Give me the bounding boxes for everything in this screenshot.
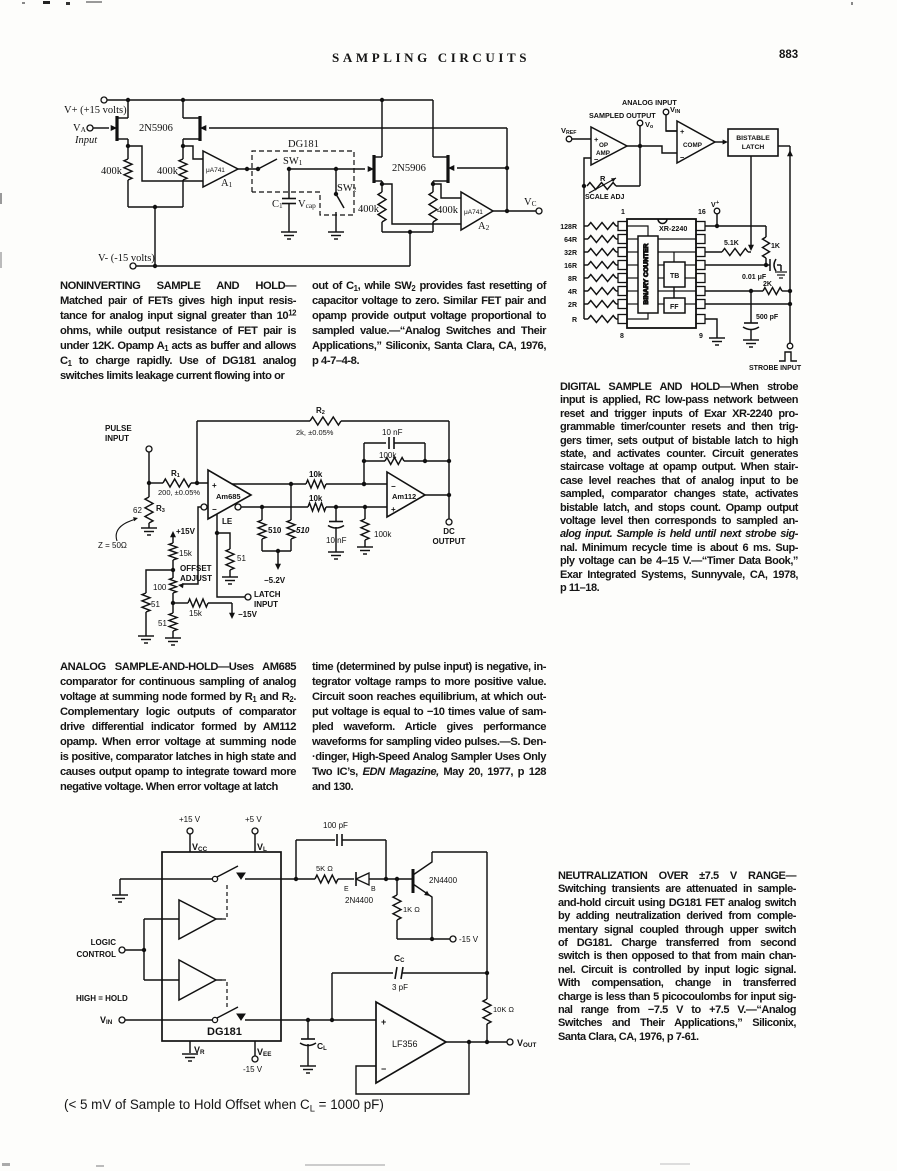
- svg-text:+: +: [212, 481, 217, 490]
- svg-text:9: 9: [699, 333, 703, 340]
- svg-text:SW1: SW1: [283, 156, 303, 167]
- svg-text:INPUT: INPUT: [254, 600, 278, 609]
- svg-text:2N4400: 2N4400: [345, 896, 374, 905]
- svg-text:−: −: [212, 505, 217, 514]
- svg-text:B: B: [371, 886, 376, 893]
- svg-text:Vcap: Vcap: [298, 199, 316, 210]
- svg-text:2N5906: 2N5906: [139, 123, 173, 134]
- svg-text:10k: 10k: [309, 470, 323, 479]
- svg-text:R1: R1: [171, 469, 180, 479]
- svg-text:OFFSET: OFFSET: [180, 564, 212, 573]
- svg-text:SW2: SW2: [337, 183, 357, 194]
- svg-text:5.1K: 5.1K: [724, 240, 739, 247]
- svg-text:8R: 8R: [568, 276, 577, 283]
- svg-text:LATCH: LATCH: [742, 144, 765, 151]
- svg-text:3 pF: 3 pF: [392, 983, 408, 992]
- svg-text:51: 51: [237, 554, 246, 563]
- svg-text:5K Ω: 5K Ω: [316, 864, 333, 873]
- svg-text:510: 510: [296, 526, 310, 535]
- svg-text:32R: 32R: [564, 250, 577, 257]
- svg-text:−15V: −15V: [238, 610, 258, 619]
- svg-text:STROBE INPUT: STROBE INPUT: [749, 365, 802, 372]
- svg-text:-15 V: -15 V: [243, 1065, 263, 1074]
- svg-text:400k: 400k: [358, 204, 380, 215]
- svg-text:CC: CC: [394, 953, 405, 964]
- svg-text:AMP: AMP: [596, 150, 610, 157]
- svg-text:LOGIC: LOGIC: [91, 938, 117, 947]
- svg-text:+15 V: +15 V: [179, 815, 201, 824]
- svg-text:VOUT: VOUT: [517, 1038, 536, 1049]
- svg-text:+5 V: +5 V: [245, 815, 262, 824]
- svg-text:XR-2240: XR-2240: [659, 224, 687, 233]
- svg-text:INPUT: INPUT: [105, 434, 129, 443]
- svg-text:+: +: [716, 200, 719, 206]
- svg-text:COMP: COMP: [683, 142, 702, 149]
- svg-text:1K: 1K: [771, 243, 780, 250]
- svg-text:SCALE ADJ: SCALE ADJ: [585, 194, 625, 201]
- svg-text:62: 62: [133, 506, 142, 515]
- svg-text:1K Ω: 1K Ω: [403, 905, 420, 914]
- svg-text:FF: FF: [670, 304, 679, 311]
- svg-text:100k: 100k: [379, 451, 397, 460]
- svg-text:100k: 100k: [374, 530, 392, 539]
- svg-text:Z = 50Ω: Z = 50Ω: [98, 541, 127, 550]
- svg-text:+15V: +15V: [176, 527, 196, 536]
- svg-text:Am112: Am112: [392, 492, 416, 501]
- svg-text:μA741: μA741: [464, 209, 483, 216]
- svg-text:8: 8: [620, 333, 624, 340]
- svg-text:R3: R3: [156, 504, 165, 514]
- svg-text:LE: LE: [222, 517, 233, 526]
- svg-text:VIN: VIN: [100, 1015, 113, 1026]
- svg-text:64R: 64R: [564, 237, 577, 244]
- svg-text:BINARY COUNTER: BINARY COUNTER: [643, 243, 650, 304]
- svg-text:15k: 15k: [189, 609, 203, 618]
- svg-text:4R: 4R: [568, 289, 577, 296]
- svg-text:100 pF: 100 pF: [323, 821, 348, 830]
- svg-text:200, ±0.05%: 200, ±0.05%: [158, 488, 200, 497]
- svg-text:51: 51: [158, 619, 167, 628]
- svg-text:0.01 μF: 0.01 μF: [742, 274, 767, 281]
- svg-text:2N5906: 2N5906: [392, 163, 426, 174]
- svg-text:Am685: Am685: [216, 492, 241, 501]
- svg-text:VA: VA: [73, 123, 87, 134]
- svg-text:VREF: VREF: [561, 126, 577, 136]
- svg-text:LATCH: LATCH: [254, 590, 281, 599]
- svg-text:LF356: LF356: [392, 1039, 418, 1049]
- svg-text:VL: VL: [257, 842, 267, 853]
- svg-text:V+ (+15 volts): V+ (+15 volts): [64, 105, 127, 116]
- svg-text:+: +: [680, 127, 685, 136]
- svg-text:E: E: [344, 886, 349, 893]
- svg-text:128R: 128R: [560, 224, 577, 231]
- svg-text:15k: 15k: [179, 549, 193, 558]
- svg-text:ADJUST: ADJUST: [180, 574, 212, 583]
- svg-text:OUTPUT: OUTPUT: [433, 537, 466, 546]
- svg-text:A1: A1: [221, 178, 233, 189]
- svg-text:C1: C1: [272, 199, 283, 210]
- svg-text:1: 1: [621, 209, 625, 216]
- svg-text:VCC: VCC: [192, 842, 208, 853]
- svg-text:Vo: Vo: [645, 120, 653, 130]
- svg-text:CONTROL: CONTROL: [76, 950, 116, 959]
- svg-text:2K: 2K: [763, 281, 772, 288]
- svg-text:R: R: [572, 317, 577, 324]
- svg-text:2R: 2R: [568, 302, 577, 309]
- svg-text:SAMPLED OUTPUT: SAMPLED OUTPUT: [589, 111, 656, 120]
- svg-text:DG181: DG181: [288, 139, 319, 150]
- svg-text:+: +: [391, 505, 396, 514]
- svg-text:TB: TB: [670, 273, 679, 280]
- svg-text:CL: CL: [317, 1041, 327, 1052]
- svg-text:BISTABLE: BISTABLE: [736, 135, 770, 142]
- svg-text:−: −: [391, 482, 396, 491]
- svg-text:PULSE: PULSE: [105, 424, 132, 433]
- svg-text:400k: 400k: [101, 166, 123, 177]
- svg-text:A2: A2: [478, 221, 490, 232]
- svg-text:HIGH = HOLD: HIGH = HOLD: [76, 994, 128, 1003]
- svg-text:DC: DC: [443, 527, 455, 536]
- svg-text:16: 16: [698, 209, 706, 216]
- svg-text:+: +: [381, 1017, 386, 1027]
- svg-text:VEE: VEE: [257, 1047, 271, 1058]
- svg-text:VC: VC: [524, 197, 537, 208]
- svg-text:μA741: μA741: [206, 167, 225, 174]
- svg-text:510: 510: [268, 526, 282, 535]
- svg-text:Input: Input: [74, 135, 98, 146]
- svg-text:500 pF: 500 pF: [756, 314, 779, 321]
- svg-text:R: R: [600, 174, 606, 183]
- svg-text:−5.2V: −5.2V: [264, 576, 286, 585]
- svg-text:−: −: [381, 1064, 386, 1074]
- svg-text:-15 V: -15 V: [459, 935, 479, 944]
- svg-text:100: 100: [153, 583, 167, 592]
- svg-text:OP: OP: [599, 142, 608, 149]
- svg-text:16R: 16R: [564, 263, 577, 270]
- svg-text:10 nF: 10 nF: [382, 428, 403, 437]
- svg-text:51: 51: [151, 600, 160, 609]
- svg-text:−: −: [680, 153, 685, 162]
- svg-text:V- (-15 volts): V- (-15 volts): [98, 253, 155, 264]
- svg-text:10 nF: 10 nF: [326, 536, 347, 545]
- svg-text:R2: R2: [316, 406, 325, 416]
- svg-text:400k: 400k: [437, 205, 459, 216]
- svg-text:10K Ω: 10K Ω: [493, 1005, 514, 1014]
- svg-text:10k: 10k: [309, 494, 323, 503]
- svg-text:2k, ±0.05%: 2k, ±0.05%: [296, 428, 334, 437]
- svg-text:400k: 400k: [157, 166, 179, 177]
- svg-text:DG181: DG181: [207, 1026, 242, 1038]
- svg-text:2N4400: 2N4400: [429, 876, 458, 885]
